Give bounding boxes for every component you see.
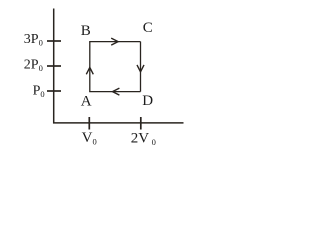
svg-text:P0: P0: [33, 83, 45, 99]
x-axis (volume axis): [53, 122, 184, 124]
svg-text:V0: V0: [82, 130, 97, 147]
arrowhead down on C-D: [137, 65, 144, 72]
tick 3P0: [47, 40, 61, 42]
wire A-B (left edge of cycle, isochoric rise): [89, 42, 91, 92]
wire C-D (right edge of cycle, isochoric drop): [140, 42, 142, 92]
wire B-C (top edge of cycle, isobaric expansion): [89, 41, 140, 43]
svg-text:3P0: 3P0: [24, 32, 43, 48]
svg-text:2P0: 2P0: [24, 58, 43, 74]
svg-text:B: B: [81, 23, 91, 39]
tick 2V0: [140, 117, 142, 130]
tick P0: [47, 90, 61, 92]
tick 2P0: [47, 65, 61, 67]
tick V0: [88, 117, 90, 130]
arrowhead left on D-A: [113, 88, 120, 95]
svg-text:C: C: [143, 20, 153, 36]
arrowhead right on B-C: [111, 38, 118, 45]
svg-text:2V0: 2V0: [131, 131, 156, 148]
arrowhead up on A-B: [86, 67, 93, 74]
svg-text:A: A: [81, 94, 92, 110]
wire D-A (bottom edge of cycle, isobaric compression): [89, 91, 140, 93]
y-axis (pressure axis): [53, 9, 55, 124]
svg-text:D: D: [142, 93, 153, 109]
